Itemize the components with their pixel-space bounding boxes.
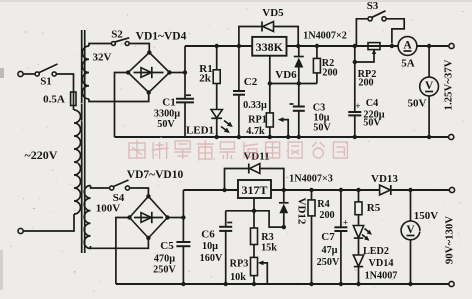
capacitor C3 [290,84,332,140]
wire [130,188,149,196]
svg-text:3300µ: 3300µ [154,109,180,120]
top rail right of 338K [287,45,399,47]
label 1N4007x3 [289,174,333,185]
svg-text:VD5: VD5 [262,7,284,19]
capacitor C7 [317,188,348,286]
svg-text:V: V [425,80,434,92]
svg-text:200: 200 [322,68,337,79]
svg-text:1N4007×3: 1N4007×3 [289,174,333,185]
svg-text:RP3: RP3 [230,259,249,270]
regulator U2 317T [238,180,271,198]
svg-text:VD13: VD13 [371,173,398,185]
svg-text:47µ: 47µ [321,245,337,256]
~220V label [25,148,58,162]
label 1.25V~37V [443,59,455,110]
bridge rectifier VD1-VD4 [126,50,172,94]
svg-text:C6: C6 [201,229,215,241]
transformer core [82,30,85,253]
svg-text:338K: 338K [256,40,284,54]
top rail bottom circuit [183,189,238,191]
svg-text:10µ: 10µ [202,241,218,252]
svg-text:VD6: VD6 [275,69,297,81]
wire [23,73,35,75]
svg-text:160V: 160V [200,253,223,264]
resistor R5 [355,188,381,226]
wire bridge2 minus to bottom rail [116,218,130,285]
top rail after VD13 [391,189,449,191]
AC input terminal top [18,71,23,76]
output terminal + top [449,43,454,48]
svg-text:+: + [343,218,348,228]
scan smudge top edge [0,0,472,2]
svg-text:S4: S4 [113,192,125,204]
output terminal + bottom [449,187,454,192]
wire [56,74,73,90]
rheostat RP2 [353,43,380,89]
svg-text:VD7~VD10: VD7~VD10 [127,169,184,181]
diode VD12 [279,188,308,227]
svg-text:90V~130V: 90V~130V [444,216,456,264]
label 1N4007x2 [303,31,347,42]
diode VD5 protection loop [239,7,298,46]
wire [129,44,149,53]
wire bridge2 plus output [168,217,184,219]
diode VD11 protection loop [222,151,283,193]
svg-text:50V: 50V [157,119,175,130]
node C1 top vertical [183,46,187,137]
wire [23,214,74,231]
bottom rail top circuit [115,136,449,138]
wire bridge1 minus to bottom rail [115,73,129,138]
svg-text:LED2: LED2 [363,246,389,257]
svg-text:1.25V~37V: 1.25V~37V [443,59,455,110]
transformer primary winding [74,110,81,214]
svg-text:200: 200 [319,210,334,221]
svg-text:VD12: VD12 [296,198,308,225]
svg-text:15k: 15k [261,243,277,254]
diode VD14 [353,255,397,286]
voltmeter V 50V [408,44,439,139]
scan smudge left edge [0,68,4,78]
switch S3 [356,0,404,48]
svg-text:10k: 10k [230,272,246,283]
svg-text:C1: C1 [162,97,175,109]
svg-text:C4: C4 [366,98,378,109]
wire [89,44,111,47]
potentiometer RP3 [230,257,268,286]
svg-text:1N4007×2: 1N4007×2 [303,31,347,42]
svg-text:2k: 2k [199,73,212,85]
top rail [185,45,252,47]
svg-text:200: 200 [358,78,373,89]
svg-text:C2: C2 [244,76,258,88]
svg-text:C5: C5 [160,240,174,252]
diode VD13 [371,173,398,195]
label VD7~VD10 [127,169,184,181]
svg-text:R4: R4 [317,199,329,210]
svg-text:R3: R3 [261,232,273,243]
svg-text:VD14: VD14 [369,258,394,269]
transformer 32V secondary winding [82,46,111,99]
bottom rail bottom circuit [116,283,449,285]
wire bridge2 AC bottom to winding [91,238,149,248]
bridge rectifier VD7-VD10 [127,194,169,240]
svg-text:50V: 50V [363,118,381,129]
diode VD6 [275,44,303,84]
svg-text:S2: S2 [111,29,123,41]
AC input terminal bottom [18,228,23,233]
potentiometer RP1 [246,113,290,139]
wire [91,186,110,189]
svg-text:S1: S1 [40,76,52,88]
label VD1~VD4 [136,31,187,43]
svg-text:0.33µ: 0.33µ [243,100,267,111]
LED LED2 [353,226,389,258]
svg-text:RP1: RP1 [248,115,267,126]
svg-text:317T: 317T [241,183,267,197]
svg-text:250V: 250V [317,257,340,268]
capacitor C4 [348,44,384,139]
ammeter A 5A [398,37,417,70]
wire ADJ net 317T [226,198,286,229]
switch S1 [35,64,57,88]
LED LED1 [186,84,233,140]
resistor R4 [308,188,335,286]
svg-text:VD1~VD4: VD1~VD4 [136,31,187,43]
svg-text:V: V [406,224,415,236]
svg-text:150V: 150V [414,210,439,222]
svg-text:~220V: ~220V [25,148,58,162]
wire bridge1 plus output [170,72,186,74]
svg-text:C7: C7 [321,231,335,243]
capacitor C6 [200,211,233,286]
resistor R2 [313,44,337,84]
transformer 100V secondary winding [84,186,120,249]
svg-text:470µ: 470µ [154,254,175,265]
svg-text:50V: 50V [313,123,331,134]
node C5 vertical [181,190,185,286]
top rail right of 317T [271,189,380,191]
svg-text:0.5A: 0.5A [43,94,65,106]
voltmeter V 150V [401,188,438,286]
label 90V~130V [444,216,456,264]
fuse 0.5A [43,90,76,110]
capacitor C2 [233,44,267,139]
svg-text:250V: 250V [153,265,176,276]
svg-text:S3: S3 [367,0,379,12]
resistor R1 [199,44,220,85]
output terminal - bottom [449,281,454,286]
svg-text:100V: 100V [96,203,121,215]
watermark [129,140,347,159]
svg-text:4.7k: 4.7k [246,126,265,137]
output terminal - top [449,134,454,139]
svg-text:A: A [403,40,412,52]
svg-text:5A: 5A [401,58,415,70]
top rail after ammeter [417,45,449,47]
switch S4 [110,180,130,204]
svg-text:+: + [355,101,360,111]
wire bridge1 AC bottom to winding [89,93,149,102]
capacitor C5 [153,240,190,276]
wire ADJ net 338K [268,56,317,113]
resistor R3 [251,228,278,257]
svg-text:32V: 32V [93,52,112,64]
svg-text:R5: R5 [367,202,381,214]
svg-text:LED1: LED1 [186,125,214,137]
capacitor C1 [154,95,194,130]
switch S2 [111,29,129,46]
regulator U1 338K [252,37,286,56]
svg-text:1N4007: 1N4007 [365,271,398,282]
